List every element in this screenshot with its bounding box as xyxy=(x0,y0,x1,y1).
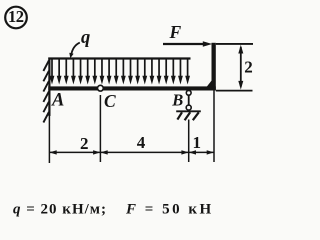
svg-text:2: 2 xyxy=(244,58,253,77)
svg-text:2: 2 xyxy=(80,134,89,153)
svg-text:1: 1 xyxy=(193,133,202,152)
svg-text:F: F xyxy=(169,22,182,42)
svg-text:q: q xyxy=(81,28,90,48)
svg-text:4: 4 xyxy=(137,133,146,152)
svg-text:12: 12 xyxy=(8,7,24,26)
svg-text:B: B xyxy=(171,91,183,110)
svg-text:C: C xyxy=(104,91,116,111)
svg-text:A: A xyxy=(51,91,64,111)
